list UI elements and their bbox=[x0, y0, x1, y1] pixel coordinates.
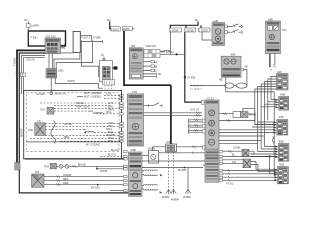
svg-text:BL/S08: BL/S08 bbox=[178, 169, 187, 172]
svg-text:VO/L: VO/L bbox=[106, 111, 112, 114]
svg-text:SW/EX P1: SW/EX P1 bbox=[55, 93, 67, 96]
wire solid into unit3 bbox=[25, 158, 127, 160]
svg-text:C60 2/32: C60 2/32 bbox=[46, 36, 57, 39]
svg-text:AN/BN: AN/BN bbox=[183, 196, 191, 199]
svg-text:4/6 S2: 4/6 S2 bbox=[249, 114, 257, 117]
svg-text:GY/90G: GY/90G bbox=[36, 93, 45, 96]
wire fuse1 down to 3/2 bbox=[81, 43, 98, 77]
fuse F9/03A bbox=[169, 28, 181, 32]
svg-text:4/6D: 4/6D bbox=[279, 141, 284, 144]
wire feed fuse 10/07 bbox=[110, 22, 111, 29]
wire fuse1 lower join bbox=[98, 76, 101, 78]
svg-text:4/2B C60: 4/2B C60 bbox=[146, 45, 157, 48]
unit 4/1B central lower (radio) bbox=[129, 149, 143, 196]
svg-text:AT S/2: AT S/2 bbox=[226, 183, 234, 186]
block D pin arrows bbox=[275, 169, 278, 182]
svg-text:4/6B: 4/6B bbox=[280, 94, 285, 97]
svg-text:SB/L: SB/L bbox=[64, 136, 70, 139]
node entry circle on box top bbox=[36, 92, 67, 96]
wire unit3 right mid lines bbox=[142, 160, 205, 162]
wire bold battery feed left bbox=[17, 50, 45, 162]
sensor 7/16 bbox=[40, 107, 54, 114]
ground symbol 3 bbox=[183, 190, 191, 199]
wire from 9/03D down bbox=[202, 32, 212, 40]
svg-text:F 9/37 3: F 9/37 3 bbox=[81, 37, 91, 40]
wire ground run bottom bbox=[19, 170, 129, 193]
wire bold 2 left bbox=[19, 53, 45, 163]
svg-text:7/9: 7/9 bbox=[37, 120, 41, 123]
component D/A speaker feed bbox=[32, 171, 45, 187]
unit3 right outputs: antenna box bbox=[142, 148, 159, 163]
label T10/8A rotated bbox=[14, 58, 17, 66]
wire bundle verticals bottom bbox=[251, 151, 275, 173]
svg-text:MY CODINC: MY CODINC bbox=[86, 144, 100, 147]
wire 3/2 top stub bbox=[101, 54, 104, 61]
svg-text:MOT 1 DIESEL: MOT 1 DIESEL bbox=[84, 92, 102, 95]
node 30+ supply left bbox=[24, 19, 29, 22]
svg-text:T10/8A: T10/8A bbox=[14, 58, 17, 66]
box dashed inner bbox=[26, 93, 119, 152]
svg-text:1C: 1C bbox=[154, 70, 157, 73]
wire 4/34 right pin cell bbox=[241, 66, 248, 86]
wire dashed grounds from WF bbox=[169, 152, 174, 190]
svg-text:S/S08: S/S08 bbox=[148, 148, 155, 151]
wire X-box outputs to column bbox=[249, 151, 258, 164]
unit 4/34 mid right bbox=[221, 54, 241, 78]
label MO2A8 rotated bbox=[21, 128, 24, 137]
svg-text:GY/L A7: GY/L A7 bbox=[190, 109, 200, 112]
node 30+ third bbox=[195, 19, 200, 22]
svg-text:4B: 4B bbox=[245, 66, 248, 69]
svg-text:GN: GN bbox=[232, 161, 236, 164]
speaker coil outputs unit3 bbox=[142, 170, 163, 194]
fuse F10/07 bbox=[111, 27, 120, 32]
svg-text:1 9/03A: 1 9/03A bbox=[170, 29, 179, 32]
wire narrow box to relay 1/5G bbox=[54, 53, 80, 69]
labels lower rows right bbox=[106, 122, 116, 143]
fuse F9/37 symbols bbox=[80, 35, 103, 42]
wire thin 3 left bbox=[22, 56, 45, 95]
svg-text:A28: A28 bbox=[277, 71, 282, 74]
node 30+ second bbox=[107, 19, 112, 22]
wire WF to U5 and unit3 bbox=[153, 146, 205, 155]
svg-text:7/16: 7/16 bbox=[40, 109, 45, 112]
wire 1/5G bottom to box entry bbox=[50, 78, 52, 92]
svg-text:AN/BR: AN/BR bbox=[171, 199, 179, 202]
labels left of upper rows bbox=[76, 102, 90, 108]
svg-text:F10/07: F10/07 bbox=[111, 28, 119, 31]
wire relay to narrow box bbox=[61, 52, 74, 54]
wire row 190 bbox=[110, 189, 127, 191]
connector pair hooks row1 bbox=[188, 119, 202, 124]
svg-text:9/08A: 9/08A bbox=[123, 28, 130, 31]
svg-text:30+: 30+ bbox=[107, 19, 112, 22]
svg-text:1 9/03B: 1 9/03B bbox=[185, 29, 194, 32]
relay 2/32 bbox=[45, 36, 61, 54]
svg-text:4A: 4A bbox=[154, 61, 157, 64]
wire dashes below 1p5 bbox=[105, 85, 111, 90]
fuse F9/03D bbox=[199, 28, 211, 32]
connector box 79/3 bbox=[144, 50, 165, 58]
svg-text:A/1B: A/1B bbox=[132, 91, 138, 94]
labels lower rows left bbox=[28, 123, 72, 139]
wire relay right stubs bbox=[61, 44, 65, 49]
svg-text:1 9/03D: 1 9/03D bbox=[199, 29, 208, 32]
wire SB branch with junction bbox=[96, 165, 127, 173]
svg-text:1/WFB: 1/WFB bbox=[31, 25, 39, 28]
svg-text:D/A: D/A bbox=[35, 171, 40, 174]
unit 4/1A central mid (ICM) bbox=[127, 91, 143, 146]
node fuse circles TH6 bbox=[57, 163, 124, 168]
svg-text:GY/SB: GY/SB bbox=[64, 123, 72, 126]
svg-text:SB/F: SB/F bbox=[63, 178, 69, 181]
wire 4/34 bottom drop bbox=[219, 77, 275, 175]
unit 4/2A central top (ICM upper) bbox=[129, 45, 156, 79]
svg-text:A/B: A/B bbox=[131, 45, 135, 48]
svg-text:2E: 2E bbox=[158, 73, 161, 76]
svg-text:ME: ME bbox=[219, 79, 223, 82]
ground symbol 1 bbox=[162, 190, 171, 199]
svg-text:BN/L: BN/L bbox=[108, 140, 114, 143]
U5 right pin cells bbox=[219, 150, 223, 181]
component WF connector bbox=[166, 141, 177, 152]
block A pin arrows bbox=[261, 99, 278, 109]
label 1/52 6H bbox=[26, 59, 35, 62]
connector block B right column bbox=[277, 116, 288, 135]
unit 4/2A right pin lines bbox=[143, 61, 161, 79]
wire dashed rows upper group bbox=[40, 103, 120, 114]
block C pin arrows bbox=[251, 146, 279, 159]
connector 1p5 below 3/2 bbox=[103, 80, 115, 85]
relay 1/5G bbox=[46, 69, 63, 79]
connector 4/40 block0 right bbox=[277, 71, 289, 90]
wire feeders down to B bbox=[252, 108, 276, 127]
wire U5 outputs bbox=[223, 150, 278, 186]
connector pair hooks row2 bbox=[188, 124, 202, 128]
svg-text:1/52 6H: 1/52 6H bbox=[26, 59, 35, 62]
svg-text:Y0 S08: Y0 S08 bbox=[187, 77, 196, 80]
label MOT 1 DIESEL rows bbox=[77, 92, 102, 99]
wire thin 4 left bbox=[24, 58, 46, 94]
wire U5 left pin bbox=[203, 164, 205, 166]
svg-text:4/6C: 4/6C bbox=[279, 116, 284, 119]
coil symbol row2 bbox=[84, 130, 94, 134]
unit 1/2B top center-right bbox=[212, 20, 225, 46]
svg-text:Y02H6: Y02H6 bbox=[67, 80, 75, 83]
unit 3/9A top right bbox=[266, 19, 287, 54]
svg-text:TH6: TH6 bbox=[44, 165, 49, 168]
svg-text:3/2: 3/2 bbox=[102, 58, 106, 61]
svg-text:4/6E: 4/6E bbox=[279, 163, 284, 166]
U4 left pin cells bbox=[203, 119, 205, 149]
switch S mid-left bbox=[144, 103, 163, 107]
unit2 pins lower bbox=[120, 123, 123, 143]
wire 3/9A bottom drops bbox=[269, 54, 276, 72]
wire fuse2 down-left bbox=[56, 43, 92, 69]
unit2 pins upper bbox=[120, 102, 123, 115]
connector pair C on left wires bbox=[16, 73, 26, 77]
wire bold main drop center bbox=[124, 31, 171, 85]
svg-text:4/WF 15/24: 4/WF 15/24 bbox=[76, 105, 90, 108]
unit 4/22 (U5 lower right) bbox=[205, 156, 219, 182]
svg-text:Y02H6: Y02H6 bbox=[100, 170, 108, 173]
svg-text:4/9B: 4/9B bbox=[131, 149, 136, 152]
svg-text:F 9/88: F 9/88 bbox=[93, 37, 101, 40]
wire unit2 to U4 pins bbox=[144, 112, 203, 117]
svg-text:E/B S1: E/B S1 bbox=[166, 51, 174, 54]
wire from 9/03A down bbox=[170, 32, 172, 54]
block B pin arrows bbox=[219, 121, 277, 133]
box F8/31 (CEM outline) bbox=[28, 31, 65, 46]
wire dashed rows into unit2 top pins bbox=[104, 93, 123, 100]
svg-text:MO2A8: MO2A8 bbox=[21, 128, 24, 137]
svg-text:T9A: T9A bbox=[282, 29, 287, 32]
wire dashed rows lower group bbox=[30, 124, 120, 142]
node black arrow right of 3/2 bbox=[112, 66, 117, 69]
X-box ground 4/62 bbox=[233, 147, 249, 157]
svg-text:AN/BL: AN/BL bbox=[162, 196, 170, 199]
wire bold drop to WF bbox=[170, 85, 172, 144]
labels right of upper rows bbox=[106, 102, 115, 114]
wire partition line MY CODING bbox=[26, 142, 121, 147]
connector block C right column bbox=[278, 141, 289, 162]
connector block D right column bbox=[278, 163, 289, 184]
wire shield wavy curve bbox=[51, 121, 56, 144]
svg-text:OR/GB: OR/GB bbox=[63, 174, 71, 177]
wire dashed BL/GN into unit3 bbox=[100, 149, 127, 158]
wire feed to fuse F8/31 bbox=[27, 22, 29, 32]
wire 1/5G pin2 run right bbox=[55, 78, 102, 88]
box MOT diesel outer bbox=[24, 90, 122, 158]
svg-text:C/S08: C/S08 bbox=[233, 147, 241, 150]
wire faint connector row right of bold corner bbox=[190, 84, 205, 90]
wire staircase from block0 bbox=[255, 77, 277, 152]
svg-text:MOT 1 DIESEL: MOT 1 DIESEL bbox=[84, 96, 102, 99]
svg-text:1/5G: 1/5G bbox=[58, 70, 63, 73]
unit A7 53 (amplifier U4) bbox=[205, 97, 219, 156]
coil symbol row1 bbox=[90, 111, 103, 114]
svg-text:BL/GN: BL/GN bbox=[111, 149, 119, 152]
wire relay bottom to relay 1/5G bbox=[49, 54, 52, 69]
wire junction rail E/B S1 bbox=[160, 51, 185, 55]
svg-text:F 8/31: F 8/31 bbox=[31, 37, 39, 40]
component TH6 row bbox=[44, 163, 57, 169]
component 4/52 inline bbox=[233, 108, 257, 117]
fuse F1 top-left bbox=[27, 24, 39, 28]
sensor 7/9 bbox=[35, 120, 45, 136]
svg-text:1/2B: 1/2B bbox=[213, 20, 218, 23]
switch S1 off 1/2B bbox=[225, 24, 243, 28]
fuse F9/03B bbox=[185, 28, 196, 32]
wire connector box to fuse A bbox=[160, 50, 171, 51]
lamp oval pair bbox=[190, 83, 247, 88]
svg-text:BL/GN: BL/GN bbox=[108, 154, 116, 157]
fuse 9/08A bbox=[122, 27, 134, 31]
switch S2 off 1/2B bbox=[225, 30, 243, 34]
box narrow relay holder bbox=[73, 31, 80, 52]
wire bold from 9/03B down to U4 bbox=[185, 32, 203, 102]
svg-text:BN-SB: BN-SB bbox=[78, 163, 86, 166]
connector block A right column bbox=[279, 94, 289, 111]
svg-text:GB/F: GB/F bbox=[63, 182, 69, 185]
node junction S08 on bold bbox=[184, 76, 196, 79]
wire bold fuse rail bbox=[170, 22, 202, 29]
wire ground drop right bbox=[187, 168, 189, 190]
svg-text:4/90: 4/90 bbox=[28, 129, 33, 132]
component 3/2 (box with connector) bbox=[100, 58, 113, 82]
svg-text:4B: 4B bbox=[154, 65, 157, 68]
X-box ground 4/34b bbox=[243, 159, 251, 168]
ground symbol 2 bbox=[171, 190, 179, 202]
svg-text:BY/S08: BY/S08 bbox=[91, 186, 100, 189]
connector pair hooks row3 bbox=[188, 129, 202, 133]
wavy shield right bbox=[272, 137, 274, 145]
wire D/A out rows bbox=[44, 174, 127, 189]
connector mini block bottom-left bbox=[15, 163, 20, 171]
wire junction rail BL/S08 bbox=[142, 167, 203, 172]
U4 top pin cell bbox=[190, 100, 204, 111]
wire U4 right outputs to column bbox=[219, 112, 265, 143]
